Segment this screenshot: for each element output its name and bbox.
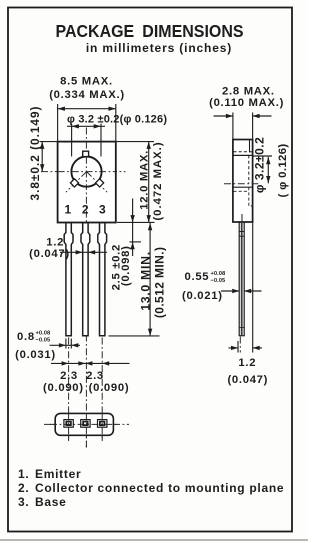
svg-text:8.5 MAX.: 8.5 MAX. [60, 76, 113, 88]
svg-text:−0.05: −0.05 [211, 278, 226, 284]
svg-text:(0.021): (0.021) [182, 290, 223, 302]
svg-text:2.3: 2.3 [60, 370, 78, 382]
svg-text:1: 1 [64, 203, 71, 217]
svg-text:3.: 3. [18, 495, 29, 509]
svg-text:(0.047): (0.047) [227, 374, 268, 386]
svg-text:2.3: 2.3 [86, 370, 104, 382]
svg-text:(0.090): (0.090) [43, 382, 84, 394]
svg-text:1.: 1. [18, 467, 29, 481]
svg-text:φ 3.2±0.2: φ 3.2±0.2 [252, 137, 266, 193]
svg-text:(0.334 MAX.): (0.334 MAX.) [49, 89, 125, 101]
svg-text:3.8±0.2 (0.149): 3.8±0.2 (0.149) [28, 106, 42, 201]
svg-text:2.8 MAX.: 2.8 MAX. [222, 86, 275, 98]
svg-text:Base: Base [35, 495, 67, 509]
svg-text:3: 3 [99, 203, 106, 217]
svg-text:PACKAGE DIMENSIONS: PACKAGE DIMENSIONS [55, 21, 243, 41]
svg-text:(0.090): (0.090) [89, 382, 130, 394]
svg-text:1.2: 1.2 [46, 237, 64, 249]
svg-text:1.2: 1.2 [238, 357, 256, 369]
svg-text:Emitter: Emitter [35, 467, 81, 481]
svg-text:−0.05: −0.05 [36, 338, 51, 344]
svg-text:(0.098): (0.098) [120, 245, 132, 286]
svg-text:(0.472 MAX.): (0.472 MAX.) [152, 141, 164, 220]
svg-text:0.55: 0.55 [185, 271, 210, 283]
svg-text:(0.110 MAX.): (0.110 MAX.) [209, 97, 284, 109]
svg-text:( φ 0.126): ( φ 0.126) [277, 143, 289, 197]
svg-text:(0.047): (0.047) [29, 248, 70, 260]
svg-text:Collector connected to mountin: Collector connected to mounting plane [35, 481, 284, 495]
svg-text:φ 3.2 ±0.2(φ 0.126): φ 3.2 ±0.2(φ 0.126) [67, 113, 167, 125]
svg-text:2.: 2. [18, 481, 29, 495]
svg-text:2: 2 [82, 203, 89, 217]
svg-text:in millimeters (inches): in millimeters (inches) [86, 41, 232, 55]
svg-text:+0.08: +0.08 [211, 271, 226, 277]
svg-text:(0.031): (0.031) [15, 349, 56, 361]
svg-text:(0.512 MIN.): (0.512 MIN.) [152, 247, 166, 319]
svg-text:+0.08: +0.08 [36, 331, 51, 337]
svg-text:0.8: 0.8 [17, 331, 35, 343]
